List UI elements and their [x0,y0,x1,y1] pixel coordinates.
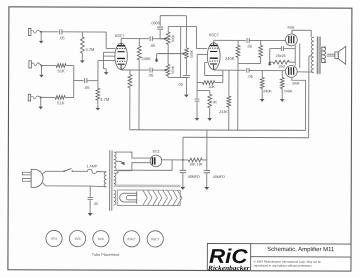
svg-text:10K 1W: 10K 1W [189,162,203,166]
tube V2 6V6 (output 2) [285,66,299,86]
pilot lamp [120,191,137,203]
wire 5Y3 filament loop [116,160,172,174]
resistor 10K 1W (filter) [183,158,207,166]
wire 5Y3 output B+ [162,159,183,161]
wire OT center tap to B+ rail [309,56,312,138]
jack J2 (input 2) [29,61,42,68]
wire switch to fuse [73,170,88,172]
title block frame [207,244,351,272]
capacitor .05 (to 6V6 no.2) [247,68,254,79]
svg-text:.05: .05 [247,44,253,49]
wire cap to 6V6 no.2 grid [249,69,285,71]
ground (tone cap) [184,95,189,98]
wire fuse to transformer [97,170,105,172]
AC plug P1 [22,169,43,187]
wire AC hot [42,171,64,174]
tube placement circles [46,230,163,247]
capacitor .0005 (bright) [150,16,164,39]
svg-text:500K: 500K [171,34,175,43]
wire 51K to bus [66,65,74,67]
wire HV top to 5Y3 plate1 [116,152,151,158]
wire tube2 grid2 loop [205,62,223,82]
svg-text:5Y3: 5Y3 [152,149,159,154]
capacitor .05 (ch1 coupling) [150,36,156,48]
svg-text:Schematic, Amplifier M11: Schematic, Amplifier M11 [267,247,335,253]
svg-text:.05: .05 [177,82,183,87]
svg-text:.0005: .0005 [151,21,160,25]
capacitor .05 (ch2 input) [84,78,90,90]
wire to tube1 grid1 [106,32,115,49]
wire B+ rail 1 (filtered) [130,129,306,132]
svg-text:243K: 243K [219,110,228,114]
wire rail B tap to tone cap [180,27,182,78]
svg-text:Tube Placement: Tube Placement [92,253,120,257]
wire screens tie [299,43,301,67]
transformer T1 5V winding [114,173,116,187]
svg-text:.05: .05 [59,35,65,40]
wire 6V6 no.1 plate to OT [292,30,311,37]
wire cap to pot1 node [152,38,164,40]
svg-text:Rickenbacker: Rickenbacker [207,265,250,272]
wire cap to pot2 [152,69,164,71]
ground (240K b) [280,99,285,102]
svg-text:51K: 51K [57,100,64,105]
wire jack2 to 51K [41,64,56,66]
logo RIC [207,246,250,272]
transformer T2 secondary [322,47,326,63]
wire pot1 to pot2 [167,44,169,64]
potentiometer 500K (volume 2) [165,64,175,76]
wire jack3 to 51K [41,96,55,98]
ground (jack 3) [38,98,43,109]
wire ch2 bus vertical [73,66,75,98]
wire tube2 plate2 row [214,69,246,72]
speaker SP1 [335,46,346,64]
heater bus shading [114,184,180,187]
svg-text:.05: .05 [148,73,154,78]
wire HV center tap [116,160,121,162]
wire raw B+ riser [182,137,184,170]
wire 6V6 no.2 plate to OT [297,71,313,73]
resistor 250 (cathode) [270,60,290,68]
wire filtered B+ riser [206,130,208,170]
svg-text:250: 250 [278,65,284,69]
wire cathode RC to ground [269,49,271,63]
ground (filter 2) [204,187,209,190]
resistor 240K (6V6 no.1 grid) [259,41,263,64]
fuse F1 1 AMP [86,164,97,173]
wire cap to grid2 node [87,80,98,82]
svg-text:5Y3: 5Y3 [51,237,57,241]
resistor 3K [208,91,218,119]
potentiometer 500K (volume 1) [165,32,175,44]
ground (4.7M ch1) [80,57,85,63]
ground (HV center tap) [121,161,125,165]
svg-text:6V6: 6V6 [293,81,300,86]
wire pot2 bottom to tone cap [168,76,183,78]
switch S1 [63,168,73,172]
node jack3 junction [40,96,42,98]
svg-text:240K: 240K [284,89,293,93]
node jack1 junction [40,31,42,33]
svg-text:6SC7: 6SC7 [151,237,159,241]
svg-text:40MFD: 40MFD [188,175,200,179]
wire tube2 plate1 row [214,40,246,43]
svg-text:4.7M: 4.7M [100,97,109,102]
svg-text:6SC7: 6SC7 [209,32,219,37]
ground (240K a) [260,99,265,102]
ground (tone wiper) [155,58,159,62]
wire grid resistors tie [238,63,261,130]
svg-text:3K: 3K [212,100,217,104]
wire tube1 plate1 row [121,39,149,44]
label copyright [254,260,322,268]
svg-text:6V6: 6V6 [288,25,295,30]
wire AC neutral [42,183,105,187]
capacitor .05 (ch2 coupling) [148,68,154,78]
transformer T1 6.3V winding [114,190,116,205]
node pot1 wiper junction [164,38,166,40]
svg-text:.05: .05 [150,43,156,48]
svg-text:25x25: 25x25 [276,54,286,58]
svg-text:6V6: 6V6 [98,237,104,241]
ground (4.7M ch2) [96,104,101,110]
node jack2 junction [40,65,42,67]
transformer T1 primary [104,172,106,187]
transformer T2 core [317,37,320,75]
svg-text:500K: 500K [190,49,194,58]
wire tube1 plate2 row [121,68,149,71]
svg-text:240K: 240K [263,89,272,93]
svg-text:240K: 240K [141,56,151,61]
wire HV bottom to 5Y3 plate2 [116,163,151,171]
resistor 243K (inverter tap) [219,70,231,130]
svg-text:.05: .05 [93,202,98,206]
capacitor .05 (to 6V6 no.1) [247,38,253,49]
potentiometer 500K (tone) [185,48,194,59]
capacitor .05 (ch1 input) [59,29,65,40]
svg-text:6SC7: 6SC7 [127,237,135,241]
resistor 51K (ch2b) [55,96,65,106]
transformer T1 core [110,150,112,211]
resistor 10K (tube2 cathode) [197,81,223,89]
tube V1 6V6 (output 1) [285,25,297,46]
wire tone wiper to ground [157,52,186,58]
ground (jack 2) [39,66,44,77]
tube V3 5Y3 (rectifier) [150,149,162,167]
jack J1 (input 1) [28,28,41,35]
wire tube1 cathodes to ground [103,52,115,68]
resistor 4.7M (ch2 grid leak) [96,81,109,105]
wire rail A (cap top to tone pot) [160,16,186,48]
wire bus to cap [74,80,84,82]
capacitor 25x25 (cathode) [270,46,286,58]
svg-text:.05: .05 [247,74,253,79]
svg-text:4.7M: 4.7M [85,47,94,52]
capacitor .05 (tone) [177,58,190,94]
wire cap to 6V6 grid [249,39,285,41]
capacitor 40MFD (output filter) [204,170,226,187]
wire tube2 cathode network [197,54,210,90]
ground (bypass cap) [195,118,200,121]
svg-text:51K: 51K [57,68,64,73]
heater chevrons [143,190,182,206]
svg-text:1 AMP: 1 AMP [86,164,97,168]
resistor 240K (tube1 plate load A) [137,39,151,130]
ground (3K) [207,118,212,121]
tube U2 6SC7 (phase inverter) [207,32,220,69]
svg-text:10K: 10K [208,85,215,89]
ground (tube1 cathode) [104,69,109,75]
ground (filter 1) [180,187,185,190]
wire cap to grid node [62,31,106,33]
svg-text:6SC7: 6SC7 [115,33,125,38]
wire 6V6 no.2 screen to B+ rail [292,77,306,130]
wire B+ rail 2 (raw) [183,136,309,138]
capacitor 40MFD (input filter) [180,170,201,187]
wire 6V6 cathodes tie [284,45,295,65]
svg-text:6V6: 6V6 [75,237,81,241]
capacitor (cathode bypass) [195,90,200,118]
transformer T2 primary [311,37,314,73]
capacitor .05 (AC line) [88,186,99,213]
svg-text:240K: 240K [225,56,235,61]
svg-text:reproduced in any fashion with: reproduced in any fashion without permis… [254,263,313,267]
svg-text:40MFD: 40MFD [213,175,225,179]
resistor 240K (tube2 plate load) [225,40,240,63]
wire jack1 to cap [41,31,58,33]
transformer T1 HV secondary [114,152,116,171]
svg-text:500K: 500K [171,65,175,74]
wire 51K to bus [65,96,74,98]
wire rail B (pot tops to tube2 grid) [168,26,207,48]
resistor 51K (ch2a) [56,64,66,74]
resistor 240K (6V6 no.2 grid b) [280,71,293,99]
node B+ junction [182,159,184,161]
wire grid2 node up to tube1 [98,60,115,80]
resistor 4.7M (ch1 grid leak) [80,32,94,57]
heater loop box [117,190,180,206]
svg-text:.05: .05 [84,85,90,90]
wire secondary to speaker [327,54,335,56]
tube U1 6SC7 (preamp) [115,33,128,69]
ground (6V6 cathode) [268,62,272,66]
jack J3 (input 3) [28,94,41,101]
resistor 240K (6V6 no.2 grid a) [260,71,272,100]
ground (jack 1) [39,33,44,44]
resistor (tube1 plate load B) [128,70,132,130]
ground (line cap) [88,213,93,216]
